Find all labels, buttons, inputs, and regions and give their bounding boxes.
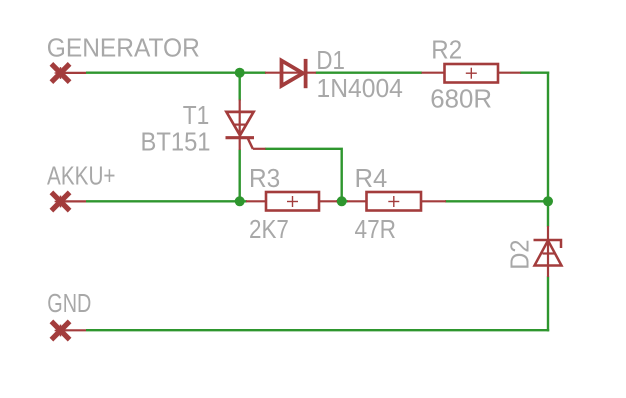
wire T1 gate to R3/R4 node <box>265 149 342 202</box>
wire net GENERATOR rail segment X to D1 <box>86 71 266 73</box>
wire GND bottom rail <box>86 329 549 331</box>
junction node GENERATOR/T1 <box>235 68 245 78</box>
wire net AKKU+ rail segment R3 to R4 <box>336 200 348 202</box>
svg-text:D1: D1 <box>316 47 345 75</box>
diode D1 <box>265 59 316 88</box>
svg-text:R3: R3 <box>249 165 280 193</box>
wire T1 anode vertical upper segment <box>238 73 240 101</box>
svg-text:1N4004: 1N4004 <box>317 75 403 103</box>
svg-text:680R: 680R <box>430 86 492 114</box>
svg-text:2K7: 2K7 <box>249 216 289 244</box>
junction node R3/R4/gate <box>337 196 347 206</box>
resistor R4 <box>347 192 446 211</box>
svg-text:BT151: BT151 <box>141 128 211 156</box>
svg-text:R2: R2 <box>431 37 462 65</box>
terminal pin X AKKU+ <box>51 192 86 210</box>
svg-text:D2: D2 <box>507 240 535 270</box>
junction node R4/R2/D2 <box>543 196 553 206</box>
svg-text:AKKU+: AKKU+ <box>47 162 116 190</box>
wire net AKKU+ rail segment X to R3 <box>86 200 247 202</box>
svg-text:GND: GND <box>47 290 91 318</box>
svg-text:GENERATOR: GENERATOR <box>47 34 200 62</box>
wire T1 cathode vertical lower segment <box>238 150 240 202</box>
wire right vertical rail lower segment (below D2) <box>547 277 549 332</box>
wire right vertical rail upper segment <box>547 72 549 227</box>
wire net AKKU+ rail segment R4 to right rail <box>445 200 548 202</box>
svg-text:47R: 47R <box>355 216 397 244</box>
resistor R3 <box>246 192 337 211</box>
wire net GENERATOR rail segment R2 to corner <box>520 71 549 73</box>
thyristor T1 <box>226 100 266 151</box>
svg-text:T1: T1 <box>183 102 210 130</box>
zener diode D2 <box>534 226 562 277</box>
wire net GENERATOR rail segment D1 to R2 <box>316 71 423 73</box>
svg-text:R4: R4 <box>355 165 388 193</box>
junction node AKKU/T1 cathode <box>235 196 245 206</box>
resistor R2 <box>422 64 521 83</box>
terminal pin X GENERATOR <box>51 64 86 82</box>
terminal pin X GND <box>51 321 86 339</box>
